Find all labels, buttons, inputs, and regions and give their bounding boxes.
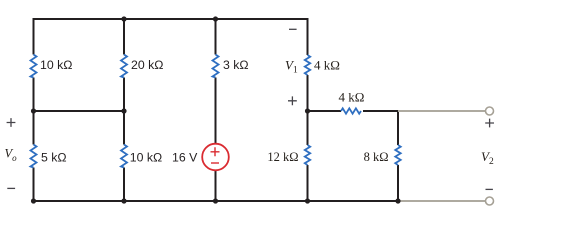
resistor R 10k top-left zigzag	[31, 55, 37, 78]
resistor R 12k zigzag	[305, 145, 310, 165]
node dot bottom branch5	[395, 198, 400, 203]
polarity plus right	[485, 119, 494, 128]
wire branch3 vertical upper	[215, 19, 217, 55]
source V 16V circle	[202, 144, 229, 171]
svg-text:8 kΩ: 8 kΩ	[364, 150, 389, 164]
resistor R 20k zigzag	[121, 55, 127, 78]
wire branch3 vertical middle	[215, 78, 217, 144]
resistor R 5k zigzag	[31, 145, 37, 168]
wire branch3 vertical lower	[215, 171, 217, 202]
polarity minus V1 top	[289, 28, 297, 30]
resistor R 10k bottom zigzag	[121, 145, 127, 168]
wire branch4 vertical middle	[307, 75, 309, 145]
svg-text:12 kΩ: 12 kΩ	[267, 150, 298, 164]
resistor R 4k horizontal zigzag	[341, 108, 361, 113]
svg-text:3 kΩ: 3 kΩ	[223, 58, 249, 72]
wire middle horizontal right (to 4k resistor)	[308, 110, 342, 112]
wire branch5 vertical upper	[397, 110, 399, 145]
wire middle horizontal right (4k resistor to corner)	[363, 110, 399, 112]
polarity plus V1 bottom	[288, 96, 297, 105]
svg-text:5 kΩ: 5 kΩ	[41, 151, 67, 165]
terminal circle top	[486, 107, 494, 115]
source plus sign	[211, 147, 220, 156]
svg-text:10 kΩ: 10 kΩ	[40, 58, 72, 72]
wire left vertical lower	[33, 168, 35, 203]
svg-text:20 kΩ: 20 kΩ	[131, 58, 163, 72]
resistor R 4k (V1) zigzag	[305, 55, 310, 75]
polarity plus left	[7, 118, 16, 127]
node dot middle branch4	[305, 108, 310, 113]
node dot top branch2	[121, 16, 126, 21]
wire branch2 vertical upper	[123, 19, 125, 55]
wire branch5 vertical lower	[397, 165, 399, 201]
wire branch2 vertical lower	[123, 168, 125, 202]
wire left vertical middle	[33, 78, 35, 145]
node dot bottom branch2	[121, 198, 126, 203]
source minus sign	[211, 162, 219, 164]
wire branch4 vertical upper	[307, 18, 309, 55]
polarity minus right	[486, 188, 493, 190]
wire gray terminal bottom	[398, 200, 486, 202]
node dot middle left	[31, 108, 36, 113]
wire branch2 vertical middle	[123, 78, 125, 145]
wire bottom horizontal	[34, 200, 399, 202]
wire middle horizontal left	[34, 110, 125, 112]
node dot bottom left	[31, 198, 36, 203]
svg-text:16 V: 16 V	[172, 151, 198, 165]
svg-text:4 kΩ: 4 kΩ	[339, 90, 365, 105]
resistor R 8k zigzag	[395, 145, 400, 165]
wire gray terminal top	[398, 110, 486, 112]
polarity minus left	[7, 187, 15, 189]
svg-text:4 kΩ: 4 kΩ	[314, 58, 340, 73]
wire left vertical upper	[33, 18, 35, 55]
wire branch4 vertical lower	[307, 165, 309, 201]
node dot bottom branch3	[213, 198, 218, 203]
node dot middle branch2	[121, 108, 126, 113]
node dot bottom branch4	[305, 198, 310, 203]
resistor R 3k zigzag	[213, 55, 219, 78]
node dot top branch3	[213, 16, 218, 21]
terminal circle bottom	[486, 197, 494, 205]
wire top horizontal	[34, 18, 308, 20]
svg-text:10 kΩ: 10 kΩ	[130, 151, 162, 165]
